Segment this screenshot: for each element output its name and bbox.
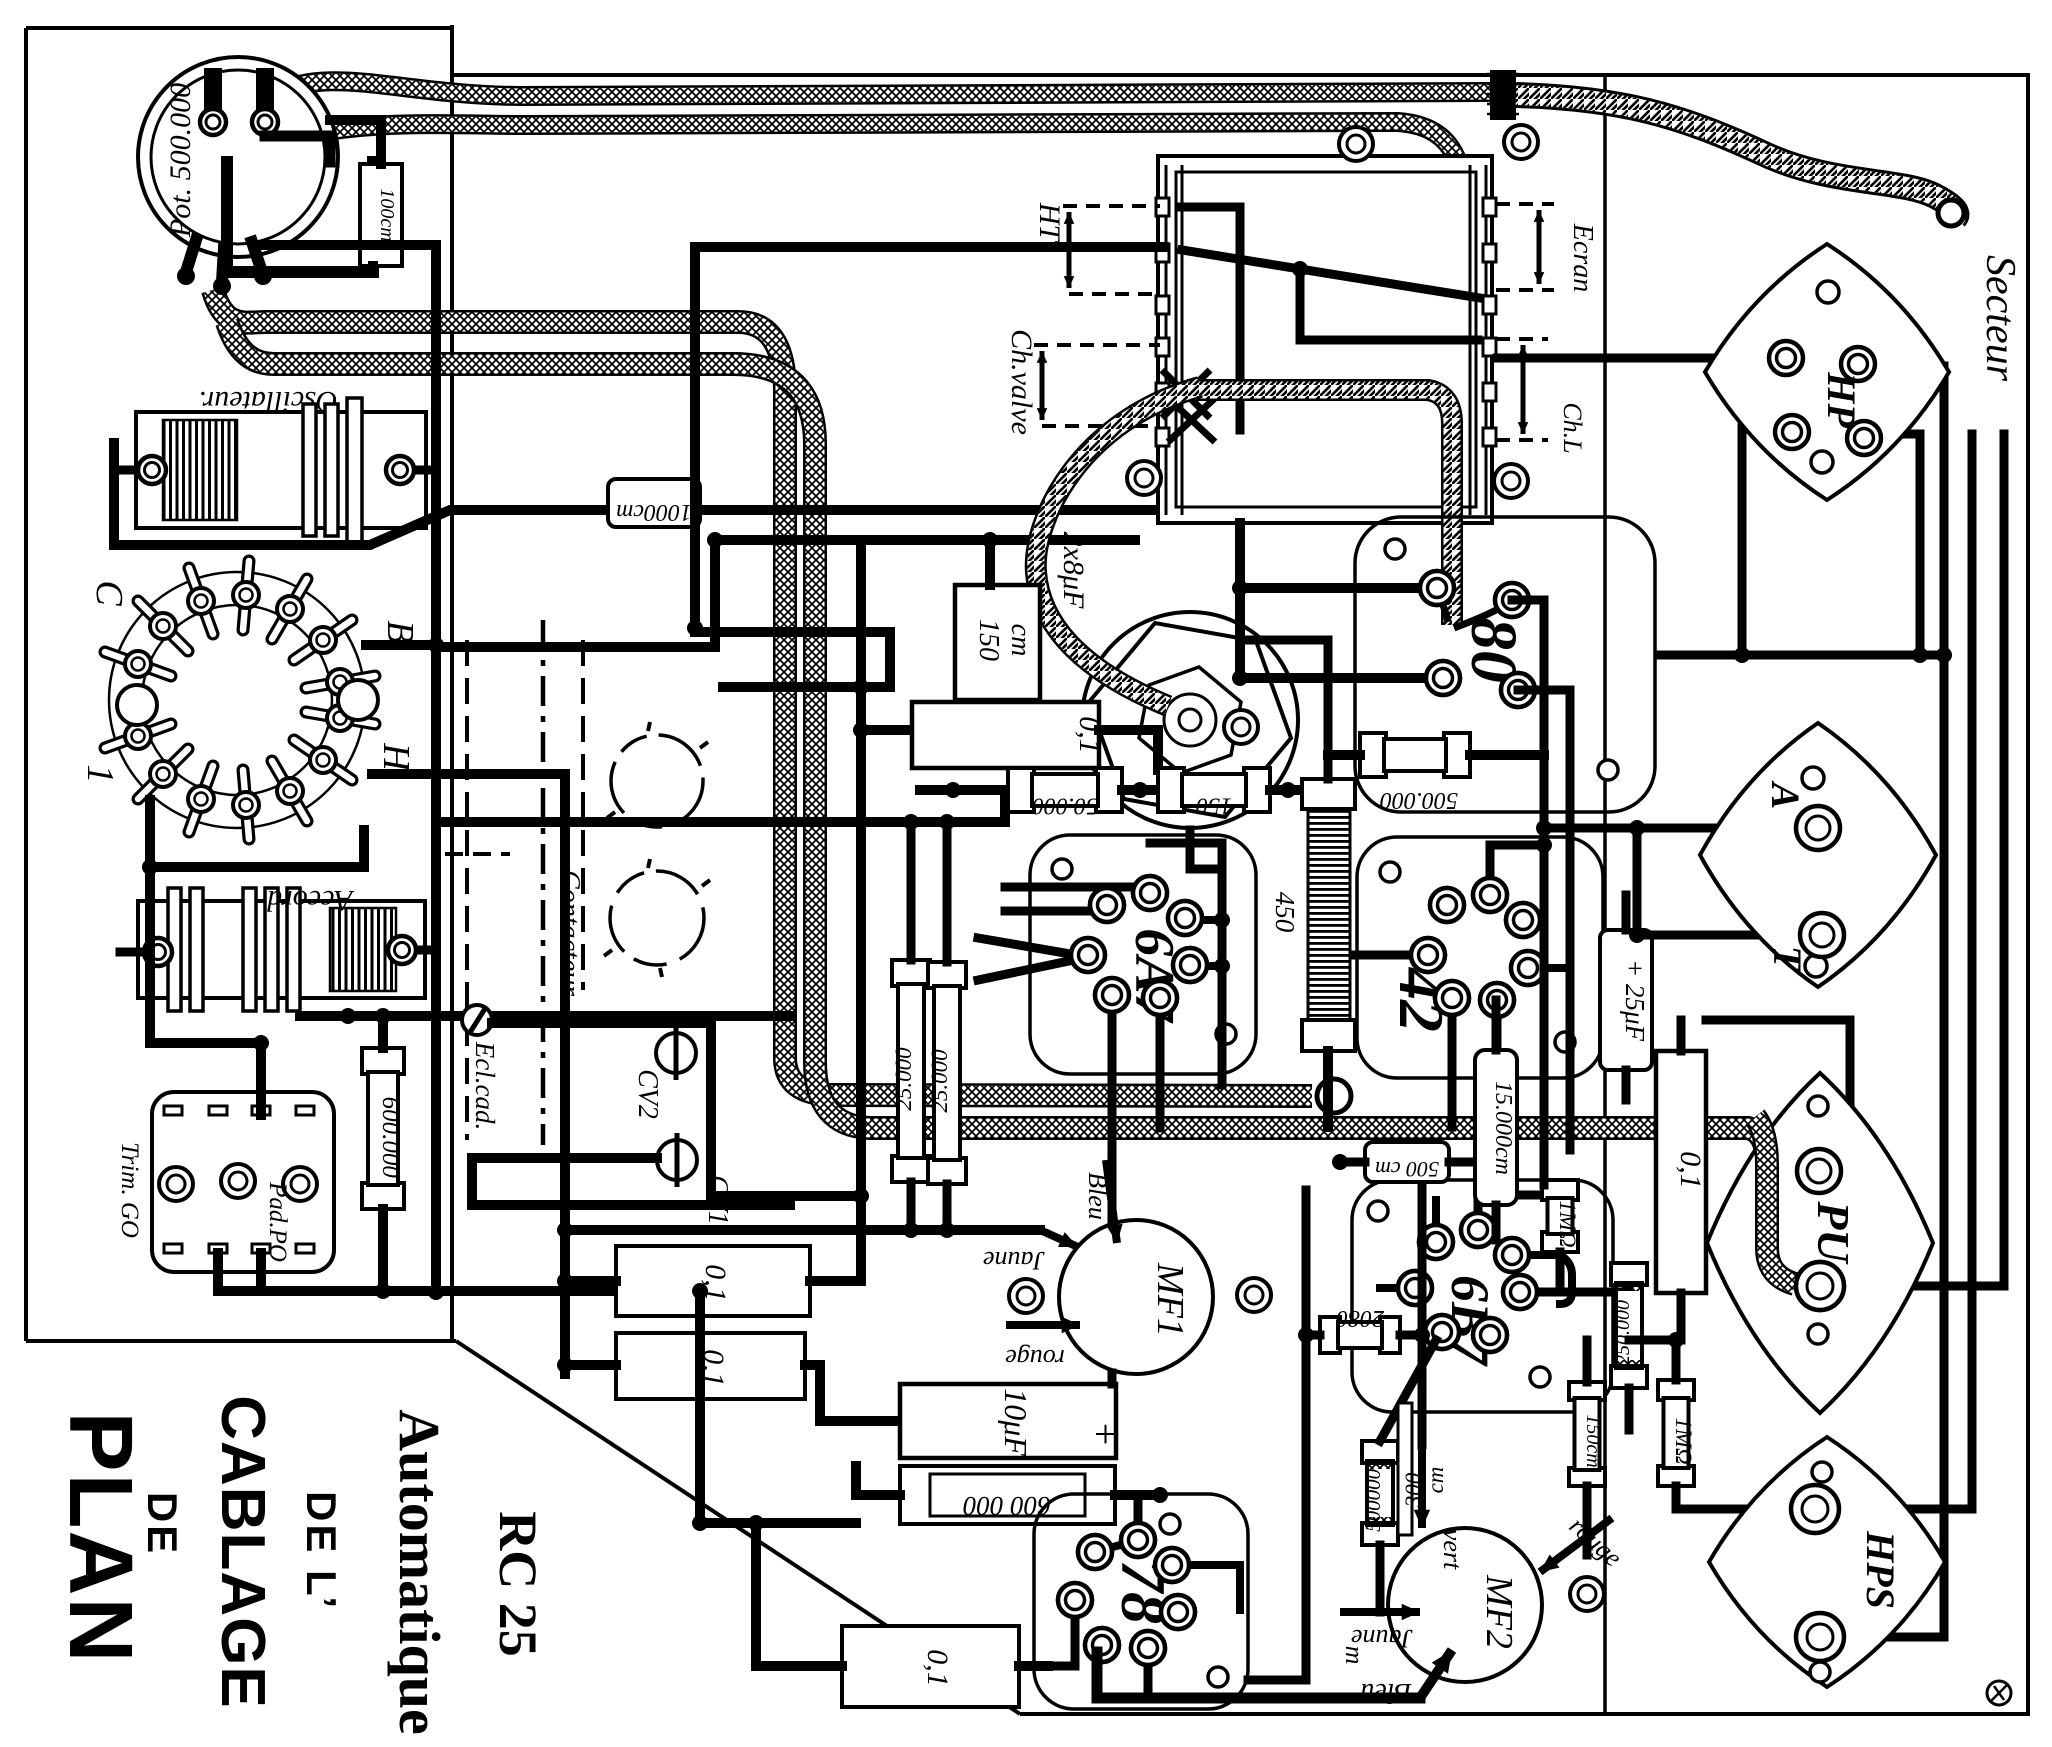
svg-text:rouge: rouge bbox=[1005, 1344, 1065, 1373]
braided cable P1 (pot bottom to loop end) bbox=[213, 290, 1312, 1096]
resistor 1M ohm (second) bbox=[1658, 1380, 1694, 1400]
svg-text:HP: HP bbox=[1819, 371, 1864, 428]
HP connector diamond bbox=[1705, 244, 1949, 500]
svg-text:100cm: 100cm bbox=[376, 188, 398, 241]
resistor 150 bbox=[1158, 768, 1184, 812]
svg-text:vert: vert bbox=[1438, 1529, 1467, 1570]
svg-text:RC 25: RC 25 bbox=[488, 1511, 548, 1657]
resistor 2080 bbox=[1320, 1317, 1340, 1353]
svg-text:Jaune: Jaune bbox=[983, 1246, 1045, 1275]
svg-text:600.000: 600.000 bbox=[377, 1097, 404, 1179]
svg-text:1MΩ: 1MΩ bbox=[1671, 1417, 1696, 1464]
secteur twisted cord bbox=[1516, 95, 1956, 218]
pot terminal lugs top bbox=[204, 68, 222, 114]
78 pin wires bbox=[1048, 1600, 1075, 1666]
Ecl.cad circle and wire bbox=[462, 1005, 492, 1035]
tube 78 socket bbox=[1034, 1494, 1248, 1709]
HT wire to the left bbox=[695, 247, 1164, 632]
wire y=647 bbox=[445, 540, 715, 647]
capacitor 300cm (thin) bbox=[1398, 1403, 1412, 1535]
tube 6A7 socket bbox=[1030, 835, 1256, 1074]
trim box leads bbox=[213, 1253, 223, 1291]
svg-text:150: 150 bbox=[1196, 792, 1232, 818]
capacitor 0,1 (big, mid) bbox=[912, 702, 1099, 768]
bottom long wire bbox=[1097, 1652, 1420, 1698]
tube 6B7 socket bbox=[1352, 1180, 1613, 1412]
pot terminal lugs bottom bbox=[186, 240, 196, 272]
capacitor 0,1 (first) bbox=[616, 1246, 810, 1316]
svg-text:450: 450 bbox=[1270, 892, 1300, 933]
A/T tap wires bbox=[1544, 824, 1792, 833]
HPS connector diamond bbox=[1709, 1437, 1945, 1687]
svg-text:A: A bbox=[1763, 780, 1808, 810]
PU connector diamond bbox=[1707, 1073, 1933, 1413]
svg-text:Trim. GO: Trim. GO bbox=[116, 1142, 143, 1238]
svg-text:cm: cm bbox=[1005, 624, 1036, 657]
wirewound resistor 450 bbox=[1302, 779, 1355, 809]
capacitor 0,1 (second) bbox=[616, 1333, 805, 1399]
wire 0,1 cap to x861 bbox=[861, 725, 912, 735]
svg-text:500 cm: 500 cm bbox=[1375, 1157, 1439, 1182]
IF transformer MF2 bbox=[1388, 1528, 1542, 1682]
svg-text:500.000: 500.000 bbox=[1380, 787, 1458, 813]
resistor 500.000 (top) bbox=[1360, 733, 1386, 777]
CV1 wire loop bbox=[472, 1158, 790, 1205]
svg-text:Ch.valve: Ch.valve bbox=[1005, 329, 1038, 435]
PU top ring feed bbox=[1706, 1020, 1850, 1171]
svg-text:1000cm: 1000cm bbox=[616, 499, 692, 525]
svg-text:MF1: MF1 bbox=[1149, 1262, 1191, 1337]
resistor 500000 (vertical, near MF2) bbox=[1362, 1441, 1398, 1463]
svg-text:150cm: 150cm bbox=[1582, 1414, 1604, 1467]
wire switch left lug down to trim box bbox=[150, 800, 261, 1043]
svg-text:1: 1 bbox=[79, 765, 121, 784]
wire switch H lug to bottom run bbox=[372, 774, 565, 1374]
svg-text:HT: HT bbox=[1033, 202, 1066, 244]
braided cable band A (pot to secteur knot, top) bbox=[272, 81, 1490, 96]
chassis mounting holes bbox=[1339, 127, 1373, 161]
dimension dashes Ecran bbox=[1496, 202, 1554, 206]
twisted lead transformer to 80 heater bbox=[1196, 390, 1452, 625]
svg-text:2080: 2080 bbox=[1336, 1305, 1384, 1331]
wire y=1016 row bbox=[300, 1011, 790, 1021]
svg-text:T: T bbox=[1765, 946, 1810, 972]
MF1 arrows bleu/jaune/rouge bbox=[1106, 1160, 1117, 1243]
verticals x=1544 x=1570 bbox=[1512, 600, 1544, 1185]
svg-text:Ecran: Ecran bbox=[1567, 223, 1598, 292]
CV2 trimmer bbox=[656, 1033, 696, 1073]
svg-text:Contacteur.: Contacteur. bbox=[554, 870, 585, 1000]
svg-text:25.000: 25.000 bbox=[891, 1047, 916, 1111]
vertical x=700 to 600000 bbox=[700, 1291, 856, 1523]
IF transformer MF1 bbox=[1059, 1220, 1213, 1374]
oscillator lugs bbox=[114, 466, 152, 475]
svg-text:Automatique: Automatique bbox=[387, 1409, 452, 1734]
svg-text:PLAN: PLAN bbox=[50, 1412, 150, 1665]
corner emblem bbox=[1987, 1681, 2011, 1705]
svg-text:Pot. 500.000: Pot. 500.000 bbox=[164, 83, 197, 238]
wire switch B lug bbox=[366, 640, 436, 650]
capacitor 1000cm label box bbox=[608, 479, 700, 527]
svg-text:500000: 500000 bbox=[1361, 1468, 1385, 1532]
svg-text:PU: PU bbox=[1808, 1200, 1859, 1265]
long vertical wire x=436 bbox=[436, 245, 750, 1291]
heavy wiring square at pot bbox=[227, 162, 373, 272]
wire y=655 bbox=[1660, 651, 1944, 660]
dimension dashes HT bbox=[1063, 204, 1160, 208]
capacitor 0,1 (tall, right) bbox=[1656, 1051, 1706, 1293]
wire trim leads bottom run y=1291 bbox=[218, 1286, 750, 1296]
X pigtail knots at Ch.valve terminals bbox=[1162, 370, 1210, 418]
resistor 25.000 (left) bbox=[892, 960, 930, 986]
capacitor 100cm bbox=[360, 164, 402, 266]
resistor 1M ohm (first) bbox=[1542, 1180, 1578, 1200]
wire y=822 long bbox=[445, 817, 1005, 827]
wire y=687 bbox=[723, 632, 890, 687]
svg-text:1MΩ: 1MΩ bbox=[1555, 1200, 1580, 1247]
svg-text:HPS: HPS bbox=[1858, 1530, 1903, 1609]
svg-text:MF2: MF2 bbox=[1478, 1574, 1520, 1649]
svg-text:0,1: 0,1 bbox=[921, 1649, 954, 1687]
wire y=640 transformer to 42 column bbox=[1240, 640, 1328, 779]
tuning coil Accord bbox=[138, 901, 425, 998]
svg-text:Ecl.cad.: Ecl.cad. bbox=[470, 1041, 500, 1130]
wire oscillator to 1000cm and transformer bbox=[114, 443, 1164, 545]
MF2 arrows vert/rouge/jaune/bleu bbox=[1418, 1445, 1426, 1528]
svg-text:m: m bbox=[1340, 1646, 1369, 1665]
svg-text:2x8μF: 2x8μF bbox=[1057, 532, 1090, 609]
wire y=1230 long (to MF1 jaune) bbox=[565, 1225, 1040, 1235]
svg-text:250.000: 250.000 bbox=[1612, 1300, 1634, 1365]
resistor 50.000 bbox=[1008, 768, 1034, 812]
tube 80 socket bbox=[1355, 517, 1655, 812]
trimmer box Trim.GO / Pad.PO bbox=[152, 1092, 334, 1272]
wire pot to 100cm bbox=[330, 120, 381, 164]
pin rings overlay bbox=[1420, 571, 1454, 605]
svg-text:150: 150 bbox=[973, 619, 1004, 661]
svg-text:25.000: 25.000 bbox=[927, 1049, 952, 1113]
dimension dashes Ch.valve bbox=[1034, 343, 1160, 347]
contacteur label bbox=[607, 722, 708, 818]
tube 42 socket bbox=[1357, 837, 1603, 1078]
CV1 trimmer bbox=[657, 1140, 697, 1180]
svg-text:H: H bbox=[375, 742, 417, 773]
capacitor 0,1 (third, bottom) bbox=[842, 1626, 1019, 1707]
42 pin wires bbox=[1355, 951, 1428, 960]
transformer internal wires bbox=[1182, 207, 1240, 430]
svg-text:CABLAGE: CABLAGE bbox=[208, 1395, 277, 1709]
6A7 pin wires bbox=[1108, 995, 1117, 1221]
svg-text:DE L’: DE L’ bbox=[298, 1491, 345, 1611]
6B7 pin wires bbox=[1478, 1195, 1544, 1230]
dimension dashes Ch.L bbox=[1496, 337, 1548, 341]
braided cable band B (pot to transformer) bbox=[268, 122, 1474, 308]
open loop end of cable P1 bbox=[1317, 1079, 1351, 1113]
svg-text:10μF: 10μF bbox=[998, 1388, 1034, 1456]
electrolytic 2x8uF can bbox=[1082, 612, 1298, 828]
resistor 150cm bbox=[1569, 1382, 1605, 1400]
svg-text:Pad.PO: Pad.PO bbox=[264, 1181, 291, 1262]
resistor 600.000 (vertical) bbox=[362, 1048, 404, 1074]
svg-text:cm: cm bbox=[1423, 1467, 1448, 1494]
rotary switch (contacteur rotatif) bbox=[109, 572, 365, 828]
wire row y=790 bbox=[920, 785, 1008, 795]
braided cable tail into PU bbox=[1755, 1117, 1795, 1284]
resistor 250.000 bbox=[1611, 1263, 1647, 1285]
vertical wire x=861 bbox=[856, 550, 866, 1196]
potentiometer Pot. 500.000 bbox=[138, 57, 338, 257]
electrolytic 25uF bbox=[1600, 930, 1652, 1070]
secteur knot bbox=[1490, 70, 1516, 120]
vertical wire x=1306 with m end bbox=[1248, 1190, 1306, 1680]
svg-text:Ch.L: Ch.L bbox=[1558, 402, 1587, 453]
electrolytic 10uF bbox=[900, 1384, 1116, 1458]
contacteur dashed shafts bbox=[465, 640, 469, 1140]
wires right of 0,1 caps bbox=[810, 1196, 861, 1281]
inner divider bbox=[1603, 75, 1607, 1714]
svg-text:CV2: CV2 bbox=[632, 1069, 663, 1119]
capacitor 600 000 bbox=[900, 1466, 1115, 1524]
braided cable P2 (pot bottom to PU socket) bbox=[227, 322, 1797, 1284]
svg-text:50.000: 50.000 bbox=[1032, 792, 1098, 818]
resistor 25.000 (right) bbox=[928, 962, 966, 988]
svg-text:15.000cm: 15.000cm bbox=[1490, 1081, 1516, 1175]
right column long verticals bbox=[1850, 366, 1944, 1637]
dial lamp circles (dashed) bbox=[611, 735, 703, 827]
A / T connector diamond bbox=[1700, 723, 1936, 987]
wire pot bottom to switch vertical bbox=[258, 240, 436, 250]
capacitor 15.000cm bbox=[1475, 1050, 1517, 1205]
svg-text:DE: DE bbox=[139, 1492, 186, 1556]
svg-text:Secteur: Secteur bbox=[1977, 255, 2023, 382]
chassis outer frame bbox=[26, 28, 456, 1341]
svg-text:Accord: Accord bbox=[266, 884, 355, 917]
svg-text:+ 25μF: + 25μF bbox=[1620, 959, 1650, 1042]
svg-text:C: C bbox=[88, 580, 130, 606]
wire 150cm/transformer feed y=540 bbox=[715, 535, 1135, 545]
svg-text:Bleu: Bleu bbox=[1083, 1172, 1112, 1220]
twisted lead transformer to 2x8uF can bbox=[1036, 387, 1200, 706]
vertical wire x=1422 (vert) bbox=[1418, 1180, 1427, 1445]
HP feed wire bbox=[1497, 354, 1782, 363]
capacitor 150 cm box bbox=[955, 585, 1040, 700]
capacitor 500 cm box bbox=[1365, 1142, 1449, 1182]
power transformer bbox=[1158, 156, 1492, 523]
svg-text:0,1: 0,1 bbox=[1674, 1151, 1707, 1189]
svg-text:+: + bbox=[1083, 1423, 1128, 1446]
